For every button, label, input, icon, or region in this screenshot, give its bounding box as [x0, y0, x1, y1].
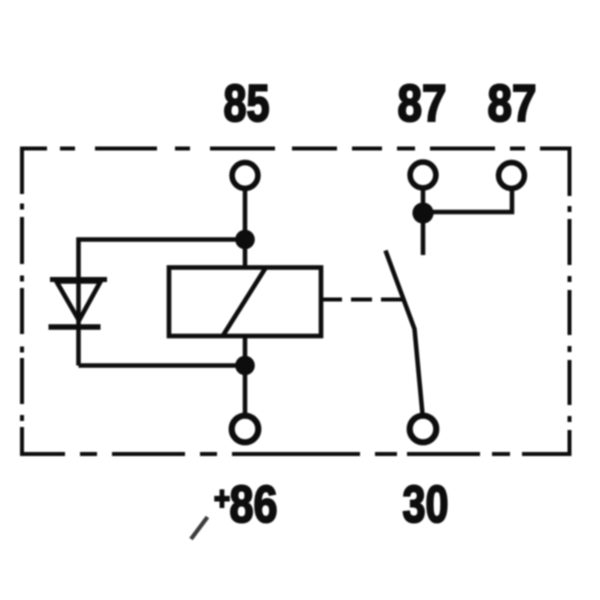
wire: terminal 87 down to node C [421, 189, 426, 207]
svg-text:+: + [214, 481, 230, 517]
svg-text:85: 85 [224, 75, 270, 133]
node B (junction dot, coil bottom) [235, 356, 255, 376]
terminal 85 (top left pin circle) [232, 163, 258, 189]
diode D1 (anode bar) [50, 277, 107, 282]
svg-text:87: 87 [398, 75, 447, 133]
svg-text:87: 87 [488, 75, 537, 133]
wire: node B down to terminal 86 [243, 366, 248, 417]
node A (junction dot, coil top / diode anode) [235, 230, 255, 250]
diode D1 (cathode bar) [49, 324, 101, 330]
terminal 30 (bottom right pin circle) [410, 416, 437, 443]
relay coil K1 (rectangle with diagonal) [169, 268, 321, 337]
diode D1 (triangle) [57, 282, 101, 321]
wire: diode cathode down and right to node B [79, 281, 246, 366]
wire: terminal 85 down to node A [243, 189, 248, 243]
wire: fixed contact stub below node C [421, 213, 426, 256]
wire: node A left and down to diode branch [79, 240, 246, 282]
svg-text:86: 86 [230, 476, 278, 534]
mechanical link (dashed actuator line from coil to armature) [321, 298, 404, 302]
svg-text:30: 30 [403, 476, 449, 534]
wire: coil bottom to node B [243, 336, 248, 366]
wire: node A down to coil top [243, 240, 248, 269]
node C (junction dot, common of both 87 pins) [412, 202, 433, 223]
wire: node C right and up to terminal 87 right [423, 190, 512, 213]
switch armature (movable contact blade to terminal 30) [386, 251, 423, 415]
terminal 86 (bottom left pin circle) [232, 416, 259, 443]
relay enclosure (dash-dot chain border) [20, 147, 571, 457]
terminal 87 left (top pin circle) [410, 162, 436, 188]
terminal 87 right (top pin circle) [499, 163, 525, 189]
leader line (slash pointing to +86 label) [191, 517, 208, 539]
